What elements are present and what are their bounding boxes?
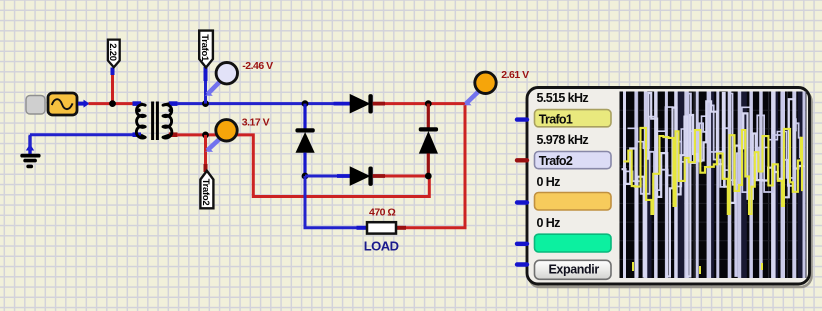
T1 polarity dots [137,108,141,112]
junction node B (Trafo1 tap) [202,100,209,107]
ground GND1 [20,136,40,168]
pin: T1 secondary top [169,101,178,106]
svg-text:Trafo1: Trafo1 [539,113,573,127]
wire: ground to transformer primary bottom [30,133,134,136]
svg-text:0 Hz: 0 Hz [537,216,561,230]
T1 secondary coil [163,104,172,138]
junction node A [109,100,116,107]
junction node D (top of left diode) [302,100,309,107]
wire: secondary top rail [177,102,350,105]
wire: node C down to Trafo2 [204,135,207,166]
svg-text:-2.46 V: -2.46 V [242,60,273,72]
diode D1 (top horizontal) [334,94,386,114]
diode D3 (bottom horizontal) [337,166,385,186]
svg-text:LOAD: LOAD [364,239,399,254]
svg-text:2.20: 2.20 [107,43,118,61]
resistor LOAD 470 [357,222,407,233]
svg-text:2.61 V: 2.61 V [501,69,529,81]
diode D4 (right vertical) [419,104,438,176]
channel button 3 (orange) [535,193,612,211]
pin: VS1 output [78,100,90,108]
channel button Trafo2 [535,152,612,169]
svg-text:Trafo1: Trafo1 [199,34,210,62]
wire: node F down to load [305,176,357,228]
svg-text:3.17 V: 3.17 V [242,116,270,128]
pin: scope input 5 [517,262,527,266]
svg-text:470 Ω: 470 Ω [369,206,395,218]
probe flag 2.20 [107,40,120,75]
pin: T1 primary bottom [133,132,142,137]
wire: node A up to probe 2.20 [111,74,114,104]
T1 primary coil [136,104,145,138]
probe flag Trafo1 [199,31,213,81]
junction node G (bottom of right diode) [425,173,432,180]
svg-text:0 Hz: 0 Hz [537,175,561,189]
svg-text:5.515 kHz: 5.515 kHz [537,91,589,105]
voltage probe P1 (white) [205,62,238,96]
voltage source VS1 (AC source) [26,93,77,115]
wire: D3 cathode to node G [385,175,428,178]
svg-text:Trafo2: Trafo2 [200,179,211,206]
probe flag Trafo2 [200,164,214,208]
voltage probe P3 (orange, output) [463,72,496,106]
pin: scope input 3 [517,200,527,204]
svg-text:5.978 kHz: 5.978 kHz [537,133,589,147]
button Expandir [535,260,612,279]
channel button 4 (green) [535,234,612,252]
pin: T1 secondary bottom [169,132,178,137]
wire: D1 cathode to top-right corner [385,102,465,105]
svg-text:Trafo2: Trafo2 [539,154,573,168]
svg-text:Expandir: Expandir [549,263,600,277]
pin: scope input 1 [517,117,527,121]
voltage probe P2 (orange) [205,120,237,153]
T1 core [151,102,154,141]
pin: scope input 2 [517,158,527,162]
wire: top rail corner down to load right [406,104,465,228]
diode D2 (left vertical) [295,104,314,176]
oscilloscope screen with waveforms [620,92,807,279]
wire: node A to transformer primary top [113,102,135,105]
junction node E (top of right diode) [425,100,432,107]
junction node F (bottom of left diode) [302,173,309,180]
channel button Trafo1 [535,110,612,127]
wire: node B down from Trafo1 [204,80,207,104]
wire: VS1 to node A [89,102,113,105]
pin: T1 primary top [133,101,142,106]
wire: node F to D3 anode [305,175,338,178]
transformer T1 [133,102,178,141]
oscilloscope panel [527,88,812,288]
wire: secondary bottom to corner [177,135,429,197]
junction node C (Trafo2 tap) [202,132,209,139]
pin: scope input 4 [517,242,527,246]
